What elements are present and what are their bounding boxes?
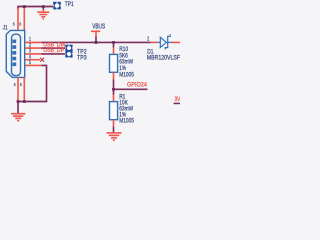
wire R10 bottom bbox=[113, 79, 115, 89]
junction bottom-right bbox=[23, 100, 26, 103]
junction ground top bbox=[42, 5, 45, 8]
junction top-right shield pin bbox=[23, 5, 26, 8]
svg-text:TP3: TP3 bbox=[77, 55, 87, 61]
testpoint TP3 bbox=[65, 51, 72, 57]
pin 3 bbox=[25, 53, 41, 55]
value text R10 bbox=[119, 47, 134, 79]
connector J1 outline bbox=[6, 30, 24, 77]
junction VBUS bbox=[95, 41, 98, 44]
power flag VBUS bbox=[91, 31, 100, 42]
wire R10 top bbox=[113, 42, 115, 47]
wire VBUS rail bbox=[42, 41, 151, 43]
wire GPIO24 bbox=[114, 88, 148, 90]
pin 4 bbox=[25, 59, 40, 61]
junction GPIO24 bbox=[112, 88, 115, 91]
svg-text:TP1: TP1 bbox=[65, 1, 74, 8]
pin J1-6 top-right bbox=[23, 8, 25, 31]
svg-text:VBUS: VBUS bbox=[92, 24, 105, 31]
wire ground stem bottom-left bbox=[17, 102, 19, 114]
diode D1 bbox=[157, 34, 172, 49]
svg-text:MBR120VLSF: MBR120VLSF bbox=[147, 55, 180, 61]
pin J1-6 bottom-left bbox=[17, 77, 19, 100]
svg-text:3V3: 3V3 bbox=[175, 96, 181, 103]
ground sym top bbox=[37, 7, 49, 20]
wire USB_DM bbox=[42, 47, 66, 49]
wire R1 top bbox=[113, 89, 115, 94]
testpoint TP1 bbox=[53, 2, 61, 10]
ground sym bottom-left bbox=[11, 114, 25, 121]
junction bottom-left bbox=[17, 100, 20, 103]
resistor R10 bbox=[110, 48, 118, 80]
value text R1 bbox=[119, 94, 134, 125]
svg-text:GPIO24: GPIO24 bbox=[127, 82, 148, 88]
svg-text:M1005: M1005 bbox=[119, 72, 134, 79]
no-connect X pin 4 bbox=[40, 58, 44, 62]
pin J1-6 bottom-right bbox=[23, 77, 25, 100]
pin J1-6 top-left bbox=[17, 8, 19, 30]
pin 5 bbox=[25, 64, 41, 66]
pin 1 bbox=[25, 41, 41, 43]
wire USB_DP bbox=[42, 53, 66, 55]
svg-text:M1005: M1005 bbox=[119, 118, 134, 125]
connector J1 receptacle bbox=[12, 34, 21, 75]
pin 2 bbox=[25, 47, 41, 49]
svg-text:J1: J1 bbox=[3, 25, 8, 32]
pin D1 anode bbox=[151, 41, 158, 43]
pin D1 cathode bbox=[172, 41, 180, 43]
wire 3V3 (cut) bbox=[174, 102, 180, 104]
wire top GND rail bbox=[18, 7, 53, 10]
resistor R1 bbox=[110, 95, 118, 127]
wire R1 ground stem bbox=[113, 127, 115, 133]
connector J1 contacts bbox=[12, 40, 16, 67]
wire pin5 to bottom rail bbox=[18, 65, 47, 101]
testpoint TP2 bbox=[65, 45, 72, 51]
junction R10 top bbox=[112, 41, 115, 44]
svg-text:USB_DP: USB_DP bbox=[43, 48, 64, 55]
ground sym R1 bbox=[107, 133, 122, 140]
